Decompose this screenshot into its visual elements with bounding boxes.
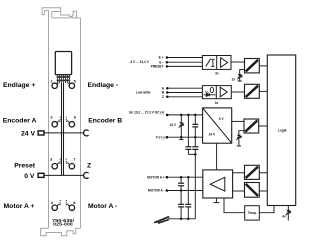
svg-text:Motor A +: Motor A +: [4, 203, 35, 210]
svg-text:025-000: 025-000: [53, 222, 74, 227]
wire driver to iso4: [233, 172, 245, 174]
svg-text:Z: Z: [87, 162, 91, 169]
suppressor 4x below logic: [287, 206, 289, 210]
wire iso5 to logic: [259, 190, 267, 192]
wire U2 to iso2: [231, 91, 244, 93]
encoder input buffer U2: [202, 86, 231, 99]
node 0V: [166, 136, 169, 139]
terminal 8: [69, 205, 74, 210]
wire temp to logic: [259, 206, 274, 213]
chassis line: [171, 218, 196, 220]
isolation barrier iso5: [245, 183, 260, 198]
svg-text:Endlage -: Endlage -: [88, 82, 119, 89]
logic block U5: [267, 55, 295, 206]
module housing outline: [42, 8, 80, 229]
24V rail: [167, 114, 202, 116]
suppressor 3x: [237, 74, 242, 79]
24V feed wire: [44, 132, 84, 134]
node E-: [166, 61, 169, 64]
wire U1 to iso1: [231, 61, 245, 63]
terminal 3: [52, 164, 57, 169]
wire U3 to driver: [216, 143, 218, 170]
svg-text:3x: 3x: [232, 77, 236, 81]
clamp bundle: [57, 75, 70, 84]
svg-text:Preset: Preset: [14, 162, 36, 169]
isolation barrier iso2: [245, 84, 260, 98]
svg-text:4x: 4x: [282, 215, 286, 219]
svg-text:24 V: 24 V: [21, 130, 35, 137]
svg-text:Logik: Logik: [278, 129, 287, 133]
svg-text:MOTOR A -: MOTOR A -: [148, 189, 165, 193]
wire E-: [167, 61, 202, 63]
24V clamp hook: [84, 130, 89, 136]
svg-text:-3 V ... 31,2 V: -3 V ... 31,2 V: [129, 60, 149, 64]
terminal 2: [52, 122, 57, 127]
node A: [166, 87, 169, 90]
0V clamp hook: [84, 172, 89, 178]
svg-text:3x: 3x: [215, 101, 219, 105]
wire iso2 to logic: [259, 90, 267, 92]
0V rail: [167, 136, 203, 138]
spring contacts row 3: [57, 159, 69, 165]
Y-capacitor C5 motor: [178, 191, 184, 219]
terminal 4: [52, 205, 57, 210]
24V feed connector square: [38, 131, 44, 135]
node 24V: [166, 114, 169, 117]
wire driver to iso5: [233, 190, 245, 192]
wire Z: [167, 96, 202, 98]
wire iso3 to logic: [259, 125, 268, 127]
wire MOTOR A-: [167, 190, 203, 192]
wire PRESET: [167, 65, 202, 67]
suppressor 24V branch: [180, 115, 182, 122]
svg-text:Low aktiv: Low aktiv: [136, 91, 151, 95]
node MOTOR A+: [166, 176, 169, 179]
DC/DC converter U3: [203, 108, 232, 143]
svg-text:24 V: 24 V: [170, 123, 177, 127]
wire E+: [167, 57, 202, 59]
svg-text:Encoder A: Encoder A: [3, 118, 37, 125]
driver ground tick: [215, 198, 217, 202]
node MOTOR A-: [166, 189, 169, 192]
X-capacitor C4 motor: [178, 177, 184, 190]
spring contacts row 2: [57, 117, 69, 123]
wire B: [167, 92, 202, 94]
terminal 6: [69, 122, 74, 127]
temp sensor box: [245, 206, 260, 220]
spring contacts row 4: [57, 200, 69, 206]
wire pair down the middle: [62, 83, 64, 175]
module foot: [41, 228, 81, 235]
wire A: [167, 87, 202, 89]
junction dots 24V rail: [180, 114, 183, 117]
svg-text:Z: Z: [162, 95, 164, 99]
svg-text:Temp.: Temp.: [248, 211, 257, 215]
node E+: [166, 56, 169, 59]
suppressor iso3: [236, 135, 241, 140]
svg-text:PRESET: PRESET: [151, 65, 164, 69]
0V feed wire: [44, 174, 84, 176]
spring contacts row 1: [57, 83, 70, 84]
svg-text:MOTOR A +: MOTOR A +: [147, 175, 165, 179]
wire iso1 suppressor branch: [240, 70, 245, 74]
chassis symbol: [154, 216, 171, 223]
isolation barrier iso3: [244, 119, 259, 133]
svg-text:Un 19,2 ... 27,3 V DC (+): Un 19,2 ... 27,3 V DC (+): [129, 110, 164, 114]
Y-capacitor C1 branch: [185, 115, 191, 154]
0V feed connector square: [38, 173, 44, 177]
Y-capacitor C6 motor: [185, 177, 191, 219]
wire iso3 suppressor branch: [239, 131, 244, 135]
node PRESET: [166, 65, 169, 68]
relay box K1: [55, 52, 71, 75]
svg-text:Endlage +: Endlage +: [3, 82, 35, 89]
wire driver to temp: [224, 198, 245, 213]
wire MOTOR A+: [167, 176, 203, 178]
svg-text:E +: E +: [159, 56, 164, 60]
terminal 7: [69, 164, 74, 169]
svg-text:0 V: 0 V: [24, 173, 35, 180]
input buffer U1: [202, 56, 231, 70]
svg-text:3x: 3x: [215, 71, 219, 75]
isolation barrier iso4: [245, 165, 260, 179]
isolation barrier iso1: [245, 59, 260, 73]
svg-text:Encoder B: Encoder B: [88, 118, 122, 125]
svg-text:0 V (-): 0 V (-): [156, 136, 165, 140]
wire cap junction: [188, 153, 195, 155]
node Z: [166, 96, 169, 99]
junction dots 0V rail: [180, 136, 183, 139]
wire iso1 to logic: [259, 65, 267, 67]
wire U3 to iso3: [232, 120, 244, 122]
svg-text:24 V: 24 V: [209, 133, 216, 137]
node B: [166, 91, 169, 94]
svg-text:Motor A -: Motor A -: [88, 203, 117, 210]
terminal 1: [52, 83, 57, 88]
wire iso4 to logic: [259, 172, 267, 174]
X-capacitor C2 and Y-capacitor C3 branch: [192, 115, 198, 219]
terminal 5: [69, 83, 74, 88]
motor driver U4: [203, 170, 233, 198]
